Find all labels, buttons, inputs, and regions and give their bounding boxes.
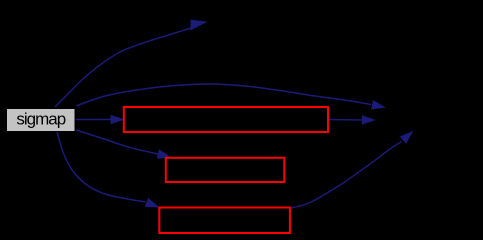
node sigmap (grey filled) [7, 109, 76, 132]
edge sigmap->box2 [76, 130, 158, 154]
edge box1->right node (straight) [329, 119, 362, 122]
arrowhead sigmap->box1 [111, 115, 125, 125]
node box1 (red outlined) [124, 107, 328, 132]
arrowhead sigmap->right node [371, 100, 386, 110]
arrowhead sigmap->top node [191, 20, 208, 31]
arrowhead box3->right node [400, 131, 414, 144]
edge box3->right node (rising curve) [291, 142, 402, 209]
edge sigmap->right node (long flat curve) [76, 84, 371, 106]
node box3 (red outlined) [159, 208, 290, 234]
svg-text:sigmap: sigmap [16, 109, 65, 128]
arrowhead sigmap->box2 [157, 149, 172, 158]
arrowhead box1->right node [362, 115, 376, 125]
node box2 (red outlined) [166, 158, 284, 182]
edge sigmap->top node (curve) [55, 28, 191, 107]
edge sigmap->box1 (straight) [76, 119, 111, 121]
edge sigmap->box3 [57, 132, 146, 203]
arrowhead sigmap->box3 [145, 198, 160, 208]
